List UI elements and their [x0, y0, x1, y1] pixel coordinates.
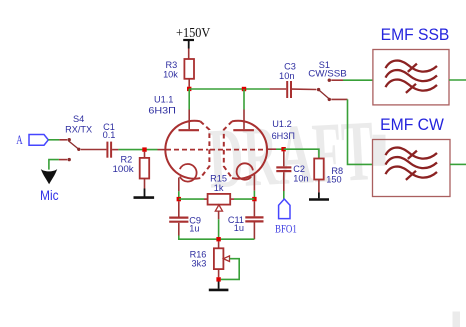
capacitor C2	[283, 151, 285, 166]
resistor R3	[184, 59, 194, 79]
svg-text:EMF CW: EMF CW	[380, 115, 444, 134]
svg-text:C3: C3	[284, 62, 296, 72]
wire cathode1 to R15	[179, 198, 204, 200]
port BFO1	[279, 199, 290, 219]
wire +150V to R3	[188, 49, 190, 60]
trimmer R16	[218, 241, 220, 248]
svg-text:C2: C2	[293, 164, 305, 174]
wire U1.1 grid pin	[158, 149, 166, 151]
wire anode rail	[189, 88, 269, 90]
svg-text:150: 150	[326, 174, 341, 184]
resistor R2	[144, 152, 146, 158]
svg-text:A: A	[16, 133, 22, 147]
potentiometer R15	[208, 194, 231, 205]
wire R16 bottom	[218, 269, 220, 277]
capacitor C3	[287, 81, 291, 98]
capacitor C1	[107, 142, 111, 158]
wire S4 pin bottom-left	[59, 159, 67, 161]
capacitor C11	[253, 201, 255, 216]
node junction U1.2 anode	[242, 87, 246, 91]
svg-text:1k: 1k	[214, 183, 224, 193]
wire U1.2 cathode lead	[253, 175, 255, 200]
svg-text:6Н3П: 6Н3П	[148, 105, 176, 115]
Mic arrow	[41, 169, 57, 184]
wire Mic to S4 bottom contact	[49, 160, 59, 170]
svg-text:RX/TX: RX/TX	[65, 125, 92, 135]
svg-text:1u: 1u	[234, 223, 244, 233]
switch S4 RX/TX	[65, 114, 92, 161]
wire C1 to grid node	[118, 149, 157, 151]
svg-text:10n: 10n	[293, 174, 308, 184]
filter FL2 EMF CW box	[373, 140, 451, 197]
svg-text:3k3: 3k3	[191, 259, 206, 269]
grid dashes between tubes	[210, 149, 226, 151]
wire rail to C3	[270, 88, 287, 90]
resistor R8	[314, 159, 324, 180]
switch S1 CW/SSB	[308, 60, 347, 101]
wire EMF SSB out	[449, 79, 466, 81]
wire grid2 to R8	[284, 149, 319, 158]
wire U1.1 cathode lead	[178, 178, 180, 200]
wire S4 pin top-left	[59, 139, 67, 141]
wire EMF CW out	[450, 163, 466, 165]
wire U1.2 anode	[243, 89, 245, 129]
node junction grid2/C2/R8	[281, 147, 285, 151]
svg-text:+150V: +150V	[176, 25, 211, 40]
node A port symbol	[29, 135, 48, 146]
wire R16 wiper return	[221, 259, 240, 280]
wire S1 top contact to EMF SSB	[331, 79, 343, 81]
op tube U1.1 plate	[179, 129, 200, 131]
wire A to S4	[48, 139, 59, 141]
wire R2 to ground	[144, 179, 146, 189]
wire R15 to cathode2	[230, 198, 234, 200]
filter FL1 EMF SSB box	[373, 50, 449, 105]
node junction R3/anode rail	[187, 87, 191, 91]
svg-text:U1.2: U1.2	[272, 119, 291, 129]
svg-text:BFO1: BFO1	[275, 221, 297, 235]
wire C3 to S1 pole	[292, 88, 316, 90]
svg-text:U1.1: U1.1	[154, 95, 173, 105]
wire R3 bottom	[188, 79, 190, 87]
watermark DRAFT	[206, 104, 376, 208]
svg-text:R3: R3	[166, 60, 178, 70]
wire U1.1 anode	[188, 89, 190, 129]
ground below R8	[309, 192, 329, 199]
op tube U1.1 grid	[166, 149, 208, 151]
wire bottom rail	[179, 236, 255, 240]
op tube U1.1 envelope	[165, 121, 209, 179]
svg-text:0.1: 0.1	[103, 130, 116, 140]
watermark fragment near EMF CW box	[373, 135, 386, 166]
svg-text:Mic: Mic	[40, 188, 59, 203]
tube U1.2 plate	[233, 129, 254, 131]
watermark fragment bottom-right	[453, 312, 461, 327]
svg-text:S4: S4	[73, 114, 84, 124]
node junction C1/R2/grid	[142, 147, 146, 151]
svg-text:100k: 100k	[113, 164, 135, 174]
node junction bottom rail / R16	[216, 237, 220, 241]
capacitor C9	[178, 201, 180, 216]
tube U1.2 envelope	[224, 121, 267, 179]
svg-text:10n: 10n	[279, 71, 295, 81]
svg-text:6Н3П: 6Н3П	[272, 131, 295, 141]
ground below R16	[209, 282, 229, 290]
ground below R2	[134, 189, 155, 198]
wire R8 bottom	[318, 180, 320, 193]
wire S1 bottom contact to EMF CW	[331, 98, 347, 100]
wire R15 wiper down	[218, 211, 220, 239]
tube U1.2 cathode	[237, 163, 253, 179]
op tube U1.1 cathode	[179, 164, 197, 182]
node junction cathode1	[177, 197, 181, 201]
node junction R16 bottom	[216, 277, 220, 281]
svg-text:1u: 1u	[189, 224, 199, 234]
tube U1.2 grid	[226, 149, 267, 151]
svg-text:CW/SSB: CW/SSB	[308, 68, 347, 78]
wire U1.2 grid pin	[267, 148, 276, 150]
svg-text:EMF SSB: EMF SSB	[381, 25, 450, 44]
wire C1 right pin	[112, 149, 118, 151]
svg-text:10k: 10k	[163, 70, 178, 80]
node junction cathode2	[252, 197, 256, 201]
wire S4 pole to C1	[81, 149, 107, 151]
